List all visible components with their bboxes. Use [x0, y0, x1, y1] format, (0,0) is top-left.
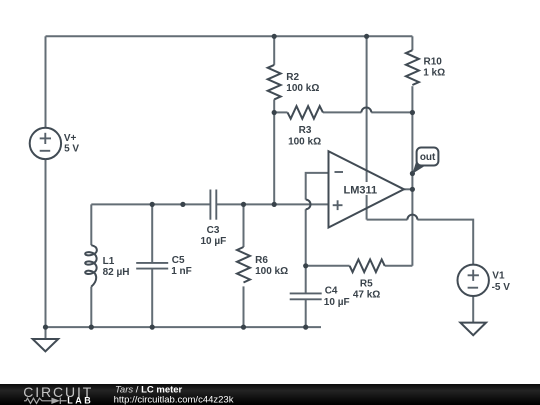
svg-text:C3: C3 [207, 225, 220, 236]
logo diode [51, 398, 60, 404]
capacitor C4 plates [290, 292, 322, 294]
node dot top rail power pin [364, 34, 369, 39]
wire mid rail L1 to C3 [91, 203, 210, 205]
node dot R3/R10 junction [410, 110, 415, 115]
node dot R6 bottom [241, 325, 246, 330]
resistor R2 zigzag [268, 65, 281, 100]
wire L1 bottom lead [90, 287, 92, 328]
node dot C5 top [150, 202, 155, 207]
node dot C5 bottom [150, 325, 155, 330]
logo zigzag wire [24, 398, 67, 404]
wire R2 bottom lead [273, 99, 275, 112]
node dot plus net [272, 202, 277, 207]
wire R10 bottom lead [411, 86, 413, 112]
svg-text:LM311: LM311 [344, 184, 378, 196]
svg-text:-5 V: -5 V [492, 282, 511, 293]
wire C5 top lead [151, 204, 153, 263]
svg-text:100 kΩ: 100 kΩ [286, 83, 319, 94]
node dot R5 left [303, 263, 308, 268]
wire top rail [46, 35, 413, 37]
resistor R3 zigzag [288, 106, 323, 119]
svg-text:82 µH: 82 µH [103, 267, 130, 278]
wire R2 top lead [273, 36, 275, 65]
wire V1 ground stub [472, 296, 474, 323]
svg-text:C4: C4 [325, 286, 338, 297]
wire op-amp V- to V1 segments [367, 219, 408, 221]
op-amp minus input sign [335, 171, 344, 173]
wire R5 right lead [385, 265, 413, 267]
wire R6 top lead [243, 204, 245, 247]
resistor R6 zigzag [237, 247, 250, 282]
V+ minus sign [40, 150, 51, 152]
wire R5 left lead [306, 265, 350, 267]
svg-text:C5: C5 [172, 255, 185, 266]
op-amp U1 triangle [329, 151, 404, 227]
wire minus input segments [306, 173, 329, 200]
svg-text:LAB: LAB [67, 395, 93, 405]
svg-text:http://circuitlab.com/c44z23k: http://circuitlab.com/c44z23k [114, 394, 234, 405]
wire R3 left lead [274, 111, 287, 113]
op-amp U1 label [343, 182, 375, 195]
wire C3 right to plus input [216, 203, 328, 205]
node dot out flag tap [410, 171, 415, 176]
svg-text:out: out [420, 152, 436, 163]
wire R10 top lead [411, 36, 413, 50]
wire C5 bottom lead [151, 269, 153, 328]
wire R3 right lead segments [323, 111, 362, 113]
flag out [412, 148, 438, 174]
ground G2 [460, 323, 486, 336]
svg-text:R6: R6 [255, 255, 268, 266]
resistor R10 zigzag [406, 50, 419, 85]
wire output vertical net [411, 112, 413, 265]
wire output pin stub [404, 188, 413, 190]
resistor R5 zigzag [350, 259, 385, 272]
plain wires (lighter antialiased look) [46, 36, 474, 339]
node dot R2/R3 junction [272, 110, 277, 115]
node dot ground rail left [43, 325, 48, 330]
wire hop on minus net over plus wire [306, 200, 311, 210]
wire G1 ground stub [45, 327, 47, 339]
svg-text:100 kΩ: 100 kΩ [288, 136, 321, 147]
wire L1 top lead [90, 204, 92, 245]
svg-text:R10: R10 [424, 56, 443, 67]
svg-text:5 V: 5 V [64, 144, 79, 155]
capacitor C3 plates [209, 190, 211, 220]
svg-text:L1: L1 [103, 256, 115, 267]
voltage source V+ circle [30, 128, 61, 159]
wire left vertical V+ bottom [45, 159, 47, 327]
node dot top rail R2 [272, 34, 277, 39]
wire R6 bottom lead [243, 286, 245, 327]
inductor L1 [85, 245, 97, 286]
node dot inline mid rail [180, 202, 185, 207]
wire bottom rail [46, 326, 322, 328]
svg-text:10 µF: 10 µF [324, 297, 350, 308]
component symbols (darker) [30, 50, 489, 351]
node dot R6 top [241, 202, 246, 207]
wire hop on R3 over power pin [361, 107, 371, 112]
wire hop on V- wire over output net [407, 215, 417, 220]
wire C4 bottom lead [305, 299, 307, 327]
svg-text:V1: V1 [492, 271, 505, 282]
svg-text:47 kΩ: 47 kΩ [353, 290, 380, 301]
svg-text:100 kΩ: 100 kΩ [255, 266, 288, 277]
svg-text:1 nF: 1 nF [171, 266, 192, 277]
V+ plus sign [40, 137, 51, 139]
V1 plus sign [468, 274, 479, 276]
svg-text:1 kΩ: 1 kΩ [423, 67, 445, 78]
wire left vertical V+ top [45, 36, 47, 127]
thin symbol marks (capacitor plates, +/- signs) [40, 133, 479, 299]
V1 minus sign [468, 287, 479, 289]
node dot L1 bottom [89, 325, 94, 330]
node dot output junction [410, 187, 415, 192]
capacitor C5 plates [136, 262, 168, 264]
wire R2 junction down to plus net [273, 112, 275, 204]
svg-text:10 µF: 10 µF [201, 236, 227, 247]
svg-text:R2: R2 [286, 72, 299, 83]
wire op-amp power pin vertical [366, 36, 368, 219]
op-amp plus input sign [333, 204, 343, 206]
svg-text:R3: R3 [299, 125, 312, 136]
node dot C4 bottom [303, 325, 308, 330]
svg-text:V+: V+ [64, 133, 77, 144]
ground G1 [33, 339, 59, 351]
svg-text:R5: R5 [360, 278, 373, 289]
voltage source V1 circle [458, 265, 489, 296]
